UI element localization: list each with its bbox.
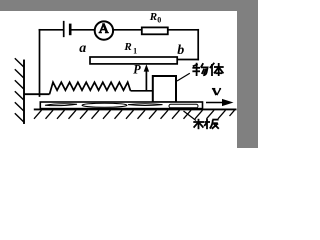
wire ammeter to R0: [114, 29, 142, 31]
wire spring to block link: [131, 90, 153, 92]
wire right vertical down to R1: [197, 30, 199, 60]
wall hatching: [15, 58, 24, 122]
battery short thick plate: [69, 25, 72, 34]
rheostat R1 body: [90, 57, 177, 64]
svg-text:b: b: [177, 43, 184, 58]
pointer P arrow: [144, 64, 149, 91]
wire top-left horizontal to battery: [40, 29, 63, 31]
board grain right leaf: [128, 104, 163, 106]
wire to R1 right end b: [178, 59, 199, 61]
leader line to object label: [177, 73, 190, 81]
svg-text:1: 1: [133, 46, 137, 55]
board grain left lens: [45, 104, 77, 106]
board label (mu-ban): [193, 119, 219, 129]
svg-text:a: a: [79, 41, 86, 56]
svg-text:P: P: [133, 62, 141, 76]
ground hatching: [34, 110, 235, 119]
wire R0 to top-right corner: [168, 29, 198, 31]
svg-text:R: R: [123, 41, 131, 53]
block (object): [153, 76, 176, 102]
object label (wu-ti): [192, 63, 223, 76]
ammeter A circle: [95, 21, 113, 39]
wire battery to ammeter: [72, 29, 95, 31]
velocity arrow v: [206, 99, 234, 106]
ammeter label A: [99, 24, 109, 33]
wall: [23, 61, 25, 124]
leader line to board label: [184, 111, 197, 121]
battery long plate: [63, 22, 65, 37]
resistor R0 body: [142, 27, 168, 34]
gray right border strip: [237, 0, 258, 148]
board grain right oval: [169, 104, 198, 108]
board grain middle ellipse: [82, 103, 127, 107]
wire wall-to-spring link: [25, 93, 50, 95]
spring: [50, 82, 131, 94]
svg-text:0: 0: [157, 16, 161, 25]
wire left vertical down: [39, 30, 41, 96]
board (wooden plank): [40, 102, 202, 109]
gray top border strip: [0, 0, 258, 11]
velocity label v: [212, 89, 221, 96]
svg-text:R: R: [149, 11, 157, 23]
ground line: [34, 108, 237, 110]
